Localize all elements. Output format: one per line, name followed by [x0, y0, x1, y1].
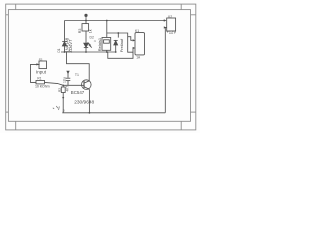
node emitter-rail	[89, 112, 91, 114]
wire LED to net	[85, 48, 87, 53]
power flag VCC	[85, 14, 87, 20]
connector X2	[167, 18, 176, 31]
svg-text:R1: R1	[37, 77, 41, 81]
node rail-relay	[106, 20, 108, 22]
node base-R2	[62, 85, 64, 87]
junction dots	[62, 20, 165, 114]
pin arrow S1	[36, 63, 39, 65]
wire coil-diode link	[107, 33, 134, 52]
svg-text:2: 2	[63, 109, 65, 113]
wire C1 sensor stub	[67, 72, 69, 78]
node X2-pin1	[164, 20, 165, 21]
pin arrow X2 pin2	[164, 26, 167, 28]
label sensor marks	[53, 106, 60, 110]
svg-text:10u: 10u	[63, 77, 67, 83]
wire X2 lower pin down	[165, 28, 166, 113]
frame tick right-lower	[191, 111, 196, 113]
wire to contact pin1	[128, 37, 133, 41]
LED arrows	[88, 42, 91, 45]
pin arrow X2 pin1	[164, 19, 167, 21]
wire R3 top	[85, 21, 87, 24]
node net-LED	[85, 51, 87, 53]
svg-text:Input: Input	[36, 70, 47, 75]
svg-text:230/9648: 230/9648	[74, 99, 94, 105]
wire R3 to LED	[85, 31, 87, 43]
node net-diode	[115, 51, 117, 53]
svg-text:R3: R3	[78, 29, 82, 34]
svg-text:4K7: 4K7	[66, 86, 70, 92]
sheet frame outer border	[6, 4, 196, 130]
wire input connector left loop	[31, 64, 40, 82]
resistor R3	[82, 24, 89, 31]
capacitor C1	[66, 71, 71, 80]
LED D2	[84, 42, 92, 47]
wire bottom return rail	[62, 112, 165, 114]
frame tick top-left	[15, 4, 17, 10]
zener diode D1	[62, 41, 67, 46]
svg-text:T1: T1	[75, 73, 79, 77]
node net-coil	[106, 51, 108, 53]
wire top supply rail	[65, 20, 165, 22]
frame tick left-lower	[6, 111, 9, 113]
svg-text:K1: K1	[135, 29, 139, 33]
frame tick right-upper	[191, 14, 196, 16]
wire coil bottom	[106, 50, 108, 52]
pin arrow contact pin1	[133, 39, 136, 41]
wire zener branch vertical	[64, 21, 66, 42]
wire relay coil feed	[106, 21, 108, 38]
wire R2 down to rail	[62, 93, 64, 113]
frame tick bottom-right	[180, 121, 182, 130]
transistor T1	[82, 80, 92, 90]
frame tick top-right	[180, 4, 182, 10]
svg-text:ZD4V7: ZD4V7	[68, 39, 73, 53]
flyback diode D3	[114, 40, 118, 52]
resistor R2	[61, 87, 65, 93]
svg-text:+12V: +12V	[166, 30, 176, 35]
connector S1 Input	[39, 61, 47, 69]
relay contact K1	[135, 33, 145, 55]
wire diode top	[117, 33, 119, 38]
pin arrow contact pin2	[133, 47, 136, 49]
svg-text:10 KOhm: 10 KOhm	[35, 84, 50, 88]
svg-text:BC547: BC547	[71, 90, 85, 95]
svg-text:1k: 1k	[88, 29, 92, 33]
node net-zener	[64, 51, 66, 53]
svg-text:Freilauf: Freilauf	[119, 38, 124, 52]
resistor R1	[36, 81, 45, 84]
svg-text:D1: D1	[57, 48, 61, 52]
svg-text:S1: S1	[39, 58, 43, 62]
sheet frame inner border	[8, 10, 190, 122]
wire net drop to collector run	[67, 52, 90, 81]
svg-text:rt: rt	[94, 39, 96, 43]
frame tick bottom-left	[15, 121, 17, 130]
node rail-R3	[85, 20, 87, 22]
frame tick left-upper	[6, 14, 9, 16]
svg-text:Relais1: Relais1	[97, 37, 102, 51]
relay coil K1	[102, 38, 111, 51]
svg-text:R2: R2	[58, 88, 62, 92]
node coil-link	[117, 32, 119, 34]
node R2-mid	[62, 97, 64, 99]
wire mid net	[61, 51, 116, 53]
wire transistor emitter down	[88, 89, 90, 112]
wire R2 stub	[62, 85, 64, 87]
wire base line	[45, 82, 59, 83]
wire under-route to contact pin2	[108, 48, 134, 58]
svg-text:X2: X2	[168, 15, 172, 19]
